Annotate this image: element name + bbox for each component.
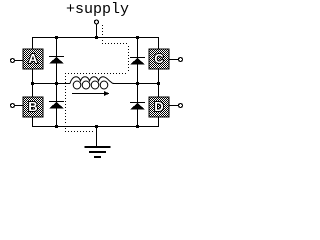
- svg-text:+supply: +supply: [66, 1, 129, 18]
- svg-text:C: C: [154, 51, 164, 66]
- svg-text:B: B: [28, 99, 37, 114]
- svg-text:D: D: [154, 99, 163, 114]
- svg-text:A: A: [28, 51, 38, 66]
